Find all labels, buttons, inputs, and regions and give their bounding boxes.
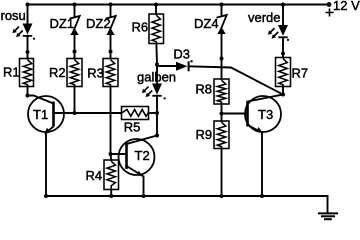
transistor T3 xyxy=(245,96,281,133)
wire T1 collector lead xyxy=(28,96,54,104)
wire R5 right terminal xyxy=(149,112,158,114)
wire node to galben LED xyxy=(156,65,158,84)
node R2 / T1 base xyxy=(73,111,77,115)
zener DZ2 xyxy=(106,16,116,35)
wire DZ2 to R3 xyxy=(110,35,112,59)
wire ground rail xyxy=(46,195,328,197)
node DZ4 / R8 xyxy=(220,57,224,61)
resistor R4 xyxy=(104,160,119,190)
wire rail to DZ1 xyxy=(74,5,76,17)
node R7 / D3 / T3 collector xyxy=(281,93,285,97)
LED galben xyxy=(142,84,166,100)
node rail DZ4 xyxy=(220,3,224,7)
svg-text:R6: R6 xyxy=(132,20,149,35)
svg-text:R1: R1 xyxy=(3,65,20,80)
wire rosu LED to R1 xyxy=(27,36,29,59)
svg-text:verde: verde xyxy=(248,10,281,25)
svg-text:DZ4: DZ4 xyxy=(194,16,219,31)
wire DZ4 to R8 node xyxy=(221,34,223,59)
svg-text:DZ1: DZ1 xyxy=(50,16,75,31)
svg-text:R2: R2 xyxy=(49,65,66,80)
resistor R5 xyxy=(122,107,149,120)
node galben / R5 xyxy=(155,111,159,115)
svg-text:R7: R7 xyxy=(292,66,309,81)
node rail R6 xyxy=(154,3,158,7)
resistor R1 xyxy=(20,59,34,87)
node R1 bottom / T1 collector xyxy=(26,94,30,98)
wire T3 emitter to ground rail xyxy=(261,133,263,197)
label +12V plus sign xyxy=(326,9,334,17)
svg-text:D3: D3 xyxy=(173,47,190,62)
wire R6 to D3 node xyxy=(155,44,158,65)
LED rosu xyxy=(12,24,35,40)
resistor R6 xyxy=(149,14,164,44)
svg-text:T3: T3 xyxy=(258,107,273,122)
node ground T1 emitter xyxy=(44,194,48,198)
resistor R8 xyxy=(214,79,229,104)
wire T3 base xyxy=(222,113,248,115)
node T2 collector xyxy=(155,134,159,138)
wire galben node to T2 collector node xyxy=(156,113,158,136)
diode D3 xyxy=(176,60,193,71)
wire verde LED to R7 node xyxy=(282,37,284,53)
svg-text:12 V: 12 V xyxy=(333,0,360,13)
wire +12V top rail xyxy=(28,4,330,6)
node R6 / D3 / galben xyxy=(155,63,159,67)
zener DZ4 xyxy=(217,15,227,34)
wire rail to DZ2 xyxy=(110,5,112,17)
resistor R3 xyxy=(103,59,118,87)
wire T1 base line to R5 xyxy=(54,112,122,114)
wire rail to DZ4 xyxy=(221,5,223,16)
wire rail to verde LED xyxy=(282,5,284,26)
wire node to R8 xyxy=(221,59,223,80)
node rail DZ1 xyxy=(73,3,77,7)
svg-text:rosu: rosu xyxy=(1,8,26,23)
node R8 / R9 / T3 base xyxy=(220,112,224,116)
wire R4 to ground rail xyxy=(110,190,112,197)
svg-text:T2: T2 xyxy=(135,148,150,163)
node DZ2 / R3 xyxy=(109,50,113,54)
svg-text:R3: R3 xyxy=(87,66,104,81)
wire R8 to T3 base node xyxy=(221,104,223,114)
wire T1 emitter to ground rail xyxy=(45,133,47,197)
LED verde xyxy=(268,25,289,41)
transistor T1 xyxy=(28,96,64,134)
svg-text:galben: galben xyxy=(137,70,176,85)
node DZ1 / R2 xyxy=(73,50,77,54)
wire R9 to ground rail xyxy=(221,149,223,197)
wire galben LED to R5 node xyxy=(156,96,158,113)
wire rail to R6 xyxy=(155,5,157,15)
node rosu LED cathode xyxy=(26,50,30,54)
svg-text:R4: R4 xyxy=(86,168,103,183)
wire T3 base node to R9 xyxy=(221,114,223,122)
wire ground drop xyxy=(327,196,329,213)
transistor T2 xyxy=(119,139,155,177)
wire T2 collector diagonal xyxy=(127,136,158,145)
node rail col1 xyxy=(26,3,30,7)
svg-text:R5: R5 xyxy=(124,120,141,135)
wire node to R7 xyxy=(282,54,284,58)
resistor R2 xyxy=(67,59,82,87)
wire T2 base node to R4 xyxy=(110,154,113,160)
wire D3 anode xyxy=(157,65,176,67)
wire col1 rail to rosu LED xyxy=(27,5,29,24)
wire R3 to T2 base node xyxy=(110,87,112,155)
wire T2 emitter to ground rail xyxy=(143,177,145,197)
node verde / R7 xyxy=(281,52,285,56)
node ground T2 emitter xyxy=(142,194,146,198)
wire R7 to T3 collector node xyxy=(282,87,284,95)
zener DZ1 xyxy=(70,16,80,35)
wire R1 to T1 collector node xyxy=(27,87,29,96)
resistor R7 xyxy=(276,58,291,87)
node ground R4 xyxy=(109,194,113,198)
wire T3 collector diagonal xyxy=(248,95,284,102)
node rail verde xyxy=(281,3,285,7)
ground xyxy=(318,213,338,219)
node rail DZ2 xyxy=(109,3,113,7)
wire D3 cathode to T3 collector node xyxy=(189,66,283,94)
svg-text:R8: R8 xyxy=(195,82,212,97)
resistor R9 xyxy=(214,121,229,149)
node +12V terminal xyxy=(327,2,332,7)
wire T2 base xyxy=(111,153,127,155)
wire DZ1 to R2 xyxy=(74,35,76,59)
wire R2 to T1 base node xyxy=(74,87,76,114)
svg-text:T1: T1 xyxy=(33,107,48,122)
svg-text:DZ2: DZ2 xyxy=(86,16,111,31)
node ground R9 xyxy=(220,194,224,198)
svg-text:R9: R9 xyxy=(196,127,213,142)
node T2 base / R4 xyxy=(109,152,113,156)
node ground T3 emitter xyxy=(260,194,264,198)
